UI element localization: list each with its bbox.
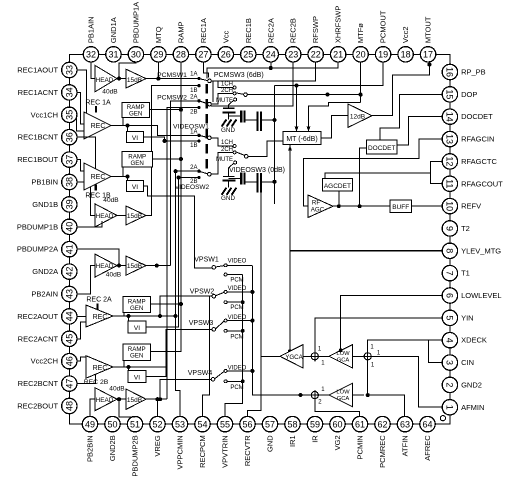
svg-text:57: 57 xyxy=(265,419,275,429)
pin 47 REC2BCNT xyxy=(18,376,77,391)
svg-text:DOP: DOP xyxy=(461,90,477,99)
wire HEAD1B to 15dB1B xyxy=(117,214,126,216)
svg-text:REC1A: REC1A xyxy=(199,18,208,43)
svg-text:VI: VI xyxy=(134,325,140,332)
wire vps1 pcm xyxy=(227,274,242,276)
svg-text:VG2: VG2 xyxy=(333,435,342,450)
pin 39 GND1B xyxy=(32,197,77,212)
svg-text:VI: VI xyxy=(132,184,138,191)
svg-text:6: 6 xyxy=(445,293,455,298)
svg-text:REC1B: REC1B xyxy=(244,18,253,43)
svg-text:REC2BCNT: REC2BCNT xyxy=(18,379,59,388)
svg-text:16: 16 xyxy=(445,67,455,77)
wire pin27 REC1A ctl xyxy=(203,62,208,78)
svg-text:RFAGCOUT: RFAGCOUT xyxy=(461,179,503,188)
svg-text:51: 51 xyxy=(130,419,140,429)
wire pin37 to REC1B xyxy=(77,160,84,171)
svg-text:Vcc2CH: Vcc2CH xyxy=(31,357,59,366)
svg-text:REC 2B: REC 2B xyxy=(84,379,109,386)
svg-text:CIN: CIN xyxy=(461,358,474,367)
op-amp 12dB xyxy=(348,104,372,127)
svg-text:REC: REC xyxy=(93,365,108,372)
svg-text:GND: GND xyxy=(221,127,235,134)
op-amp HEAD 1B xyxy=(95,197,119,227)
wire VI1A out to VIDEOSW1 1B xyxy=(144,137,198,143)
wire vsw1 common to 1CH xyxy=(211,138,233,146)
pin 46 Vcc2CH xyxy=(31,354,77,369)
svg-text:LOWLEVEL: LOWLEVEL xyxy=(461,291,501,300)
wire VI2B top xyxy=(128,367,130,370)
wire sw1 common to 1CH xyxy=(211,81,233,88)
package ring bus xyxy=(69,54,450,424)
wire pcm bus xyxy=(242,275,244,382)
svg-text:42: 42 xyxy=(65,267,75,277)
wire pin52 VREG xyxy=(157,399,159,416)
svg-text:36: 36 xyxy=(65,132,75,142)
block VI 2A xyxy=(128,321,146,333)
wire pin21 gang xyxy=(207,62,338,79)
wire S2 to LOWGCA1 xyxy=(353,355,365,357)
label MUTE pcm xyxy=(216,98,233,104)
label S2 w3 xyxy=(371,363,375,369)
switch VPSW4 xyxy=(211,369,227,382)
svg-text:VPSW2: VPSW2 xyxy=(190,289,215,296)
pin 36 REC1BCNT xyxy=(18,130,77,145)
svg-text:YIN: YIN xyxy=(461,313,474,322)
svg-text:27: 27 xyxy=(198,50,208,60)
label 2B vsw2 xyxy=(190,179,197,185)
pin 16 RP_PB xyxy=(442,64,486,79)
svg-text:PBDUMP2B: PBDUMP2B xyxy=(131,435,140,476)
pin 37 REC1BOUT xyxy=(17,152,77,167)
sum node S3 xyxy=(310,390,321,401)
label MUTE vid xyxy=(216,157,233,163)
wire RFAGC out to BUFF xyxy=(333,205,390,207)
svg-text:39: 39 xyxy=(65,199,75,209)
pin 44 REC2AOUT xyxy=(17,309,77,324)
svg-text:Vcc1CH: Vcc1CH xyxy=(31,110,59,119)
block DOCDET xyxy=(367,140,398,154)
wire cap branch vid xyxy=(229,177,240,179)
svg-text:YGCA: YGCA xyxy=(285,354,303,361)
pin 9 T2 xyxy=(442,221,470,236)
wire pin36 to REC1B ctl xyxy=(77,137,96,169)
ground pcm xyxy=(222,120,237,127)
label VIDEO vps2 xyxy=(228,286,247,292)
pin 20 MTFø xyxy=(353,23,368,62)
wire XDECK CIN to S2 xyxy=(368,340,443,362)
label VPSW3 xyxy=(189,320,214,327)
wire VI2A out riser VIDEOSW2 2B xyxy=(146,176,198,328)
svg-text:BUFF: BUFF xyxy=(392,204,409,211)
pin 13 RFAGCIN xyxy=(442,131,494,146)
label 2CH pcm xyxy=(221,88,233,94)
svg-text:12: 12 xyxy=(445,156,455,166)
svg-text:REC1AOUT: REC1AOUT xyxy=(17,66,58,75)
svg-text:GEN: GEN xyxy=(130,160,143,167)
svg-text:PCMIN: PCMIN xyxy=(356,435,365,459)
label PCM vps2 xyxy=(230,305,243,311)
wire pin23 stub xyxy=(211,62,293,106)
svg-text:PCM: PCM xyxy=(230,305,243,311)
svg-text:PB1BIN: PB1BIN xyxy=(31,178,58,187)
pin 60 VG2 xyxy=(330,416,345,450)
pin 54 RECPCM xyxy=(195,416,210,467)
label VIDEO vps1 xyxy=(228,259,247,265)
svg-text:59: 59 xyxy=(310,419,320,429)
wire pin34 to REC1A xyxy=(77,92,84,124)
svg-text:REC: REC xyxy=(93,314,108,321)
wire pin47 to REC2B ctl xyxy=(77,374,96,383)
svg-text:PB2AIN: PB2AIN xyxy=(31,290,58,299)
wire pin55 to pcm bus xyxy=(225,381,243,416)
wire 15dB2B out xyxy=(146,397,167,401)
svg-text:15dB: 15dB xyxy=(127,77,142,84)
pin 8 YLEV_MTG xyxy=(442,243,501,258)
wire cap2 to riser vid xyxy=(261,180,277,184)
svg-text:60: 60 xyxy=(332,419,342,429)
svg-text:XHRFSWP: XHRFSWP xyxy=(334,6,343,44)
svg-text:8: 8 xyxy=(445,248,455,253)
pin 23 REC2B xyxy=(286,18,301,62)
wire YLEV_MTG xyxy=(290,250,442,252)
svg-text:PCMSW2: PCMSW2 xyxy=(157,94,187,101)
svg-text:1B: 1B xyxy=(190,143,197,149)
pin 63 ATFIN xyxy=(397,416,412,456)
svg-text:37: 37 xyxy=(65,155,75,165)
label PCMSW3 xyxy=(214,72,264,79)
svg-text:15dB: 15dB xyxy=(127,213,142,220)
pin 28 RAMP xyxy=(173,21,188,62)
label 1CH vid xyxy=(221,140,233,146)
svg-text:PCMOUT: PCMOUT xyxy=(379,10,388,43)
pin 19 PCMOUT xyxy=(375,10,390,62)
wire REC1A out / VIDEOSW1 1A xyxy=(111,124,198,136)
wire cap2 to riser pcm xyxy=(261,118,277,122)
capacitor mute-vid xyxy=(222,168,235,188)
op-amp 15dB 2B xyxy=(126,389,146,409)
wire pin44 to REC2A xyxy=(77,315,86,317)
svg-text:1: 1 xyxy=(445,405,455,410)
pin 43 PB2AIN xyxy=(31,286,77,301)
svg-text:18: 18 xyxy=(401,50,411,60)
op-amp LOW GCA 1 xyxy=(329,345,353,368)
pin 59 IR xyxy=(307,416,322,442)
wire vps2 pcm xyxy=(227,300,244,304)
svg-text:40dB: 40dB xyxy=(109,386,125,393)
svg-text:LOW: LOW xyxy=(336,351,350,357)
label 1B vsw1 xyxy=(190,143,197,149)
pin 22 RFSWP xyxy=(308,16,323,62)
wire pin45 to REC2A xyxy=(77,322,86,339)
wire S3 left to video bus xyxy=(252,266,311,397)
wire REC2B out xyxy=(113,365,166,369)
label 1A sw1 xyxy=(190,71,197,77)
wire pin43 to HEAD2A xyxy=(77,266,95,294)
svg-text:41: 41 xyxy=(65,244,75,254)
svg-text:MT (-6dB): MT (-6dB) xyxy=(286,136,317,143)
svg-text:VIDEO: VIDEO xyxy=(228,259,247,265)
wire riser VPSW2 from REC2A xyxy=(160,296,212,316)
wire ramp1A stub xyxy=(150,109,181,111)
wire pin38 to HEAD1B xyxy=(77,182,95,215)
block AGCDET xyxy=(322,179,352,192)
pin 61 PCMIN xyxy=(352,416,367,459)
capacitor big vid xyxy=(258,173,262,193)
svg-text:GND2A: GND2A xyxy=(32,267,58,276)
wire pin46 Vcc2CH xyxy=(77,357,86,361)
svg-text:REC2BOUT: REC2BOUT xyxy=(17,402,58,411)
wire pin24 stub xyxy=(269,62,273,70)
wire cap2 col to pin56 xyxy=(248,193,262,417)
pin 30 PBDUMP1A xyxy=(128,2,143,62)
svg-text:35: 35 xyxy=(65,110,75,120)
svg-text:23: 23 xyxy=(288,50,298,60)
block MT -6dB xyxy=(283,132,321,145)
wire rampgen2B stub xyxy=(123,360,125,367)
label VIDEO vps3 xyxy=(228,315,247,321)
op-amp HEAD 2A xyxy=(95,254,122,278)
svg-text:47: 47 xyxy=(65,379,75,389)
pin 24 REC2A xyxy=(263,18,278,62)
svg-text:RFAGCIN: RFAGCIN xyxy=(461,135,494,144)
svg-text:VI: VI xyxy=(132,135,138,142)
wire riser 2B to PCMSW2 2B xyxy=(167,108,198,400)
svg-text:2B: 2B xyxy=(190,110,197,116)
svg-text:25: 25 xyxy=(243,50,253,60)
wire pin53 riser xyxy=(174,314,180,416)
label S1 w1 xyxy=(318,347,322,353)
pin 35 Vcc1CH xyxy=(31,107,77,122)
pin 51 PBDUMP2B xyxy=(127,416,142,476)
wire vps2 video xyxy=(227,290,254,294)
wire VI1A top xyxy=(127,126,129,132)
svg-text:XDECK: XDECK xyxy=(461,336,487,345)
op-amp REC 1A xyxy=(84,112,111,139)
svg-text:PB1AIN: PB1AIN xyxy=(87,16,96,43)
pin 17 MTOUT xyxy=(420,16,435,62)
svg-text:Vcc: Vcc xyxy=(221,30,230,43)
svg-text:PB2BIN: PB2BIN xyxy=(86,435,95,462)
pin 3 CIN xyxy=(442,355,474,370)
svg-text:Vcc2: Vcc2 xyxy=(401,26,410,43)
switch PCMSW3 xyxy=(233,86,247,96)
label 2A vsw2 xyxy=(190,165,197,171)
svg-text:17: 17 xyxy=(423,50,433,60)
svg-text:40dB: 40dB xyxy=(102,89,118,96)
label PCMSW2 xyxy=(157,94,187,101)
label 2B sw2 xyxy=(190,110,197,116)
svg-text:RFAGCTC: RFAGCTC xyxy=(461,157,497,166)
svg-text:AFREC: AFREC xyxy=(423,435,432,461)
wire HEAD1A to 15dB1A xyxy=(117,78,126,80)
label 1CH pcm xyxy=(221,81,233,87)
pin 26 Vcc xyxy=(218,30,233,62)
wire VI2A top xyxy=(128,316,130,321)
block RAMP GEN 1A xyxy=(122,102,150,117)
svg-text:13: 13 xyxy=(445,134,455,144)
wire VI1B top xyxy=(127,177,129,181)
pin 12 RFAGCTC xyxy=(442,154,497,169)
wire riser VPSW4 xyxy=(160,379,211,399)
svg-text:GEN: GEN xyxy=(129,111,142,118)
label S1 w2 xyxy=(321,361,325,367)
wire AGCDET down xyxy=(337,191,341,208)
wire pin13 to RFAGC xyxy=(303,139,442,206)
svg-text:19: 19 xyxy=(378,50,388,60)
label VPSW1 xyxy=(194,257,219,264)
wire REC1B out xyxy=(111,175,130,179)
label GND pcm xyxy=(221,127,235,134)
label 1B sw1 xyxy=(190,88,197,94)
pin 62 PCMREC xyxy=(375,416,390,467)
svg-text:REC 1B: REC 1B xyxy=(85,193,111,200)
op-amp RF AGC xyxy=(308,195,333,218)
label S2 w1 xyxy=(370,345,374,351)
pin 29 MTQ xyxy=(151,26,166,62)
svg-text:1A: 1A xyxy=(190,129,197,135)
svg-text:PCM: PCM xyxy=(230,335,243,341)
pin 1 AFMIN xyxy=(442,400,484,415)
wire pin32 to HEAD1A xyxy=(91,62,95,79)
pin 6 LOWLEVEL xyxy=(442,288,501,303)
svg-text:1A: 1A xyxy=(190,71,197,77)
pin 50 GND2B xyxy=(105,416,120,461)
svg-text:4: 4 xyxy=(445,338,455,343)
op-amp HEAD 1A xyxy=(95,65,118,95)
svg-text:PCM: PCM xyxy=(230,278,243,284)
wire ramp1B stub xyxy=(150,158,181,160)
svg-text:63: 63 xyxy=(400,419,410,429)
pin 38 PB1BIN xyxy=(31,174,77,189)
label REC 1A xyxy=(85,100,111,107)
svg-text:REC2A: REC2A xyxy=(266,18,275,43)
wire MT out to 12dB xyxy=(321,116,348,138)
svg-text:PBDUMP1A: PBDUMP1A xyxy=(131,2,140,43)
wire vps4 pcm xyxy=(227,379,244,383)
svg-text:43: 43 xyxy=(65,289,75,299)
svg-text:62: 62 xyxy=(377,419,387,429)
svg-text:GCA: GCA xyxy=(337,358,350,364)
wire pin29 MTQ xyxy=(157,62,159,79)
switch PCMSW2 xyxy=(197,99,211,109)
svg-text:HEAD: HEAD xyxy=(96,77,114,84)
control tick REC1A xyxy=(95,106,97,113)
svg-text:RECVTR: RECVTR xyxy=(243,435,252,466)
svg-text:32: 32 xyxy=(86,50,96,60)
pin 40 PBDUMP1B xyxy=(17,219,77,234)
pin 58 IR1 xyxy=(285,416,300,447)
svg-text:21: 21 xyxy=(333,50,343,60)
op-amp 15dB 1B xyxy=(126,206,146,225)
label GND vid xyxy=(221,195,235,202)
wire S1 to YGCA xyxy=(303,355,311,357)
svg-text:GND1B: GND1B xyxy=(32,200,58,209)
label REC 2A xyxy=(86,297,112,304)
wire DOP to DOCDET xyxy=(380,94,442,140)
svg-text:REC 2A: REC 2A xyxy=(86,297,112,304)
op-amp REC 2B xyxy=(86,356,113,379)
pin 64 AFREC xyxy=(420,416,435,460)
svg-text:LOW: LOW xyxy=(336,390,350,396)
svg-text:HEAD: HEAD xyxy=(96,397,114,404)
wire ramp2A stub xyxy=(151,303,181,305)
wire vps3 video xyxy=(227,319,254,323)
svg-text:GEN: GEN xyxy=(130,305,143,312)
svg-text:3: 3 xyxy=(445,360,455,365)
svg-text:31: 31 xyxy=(108,50,118,60)
svg-text:44: 44 xyxy=(65,311,75,321)
svg-text:22: 22 xyxy=(311,50,321,60)
wire 15dB1B out riser to PCMSW1 1B xyxy=(146,86,198,216)
svg-text:MUTE: MUTE xyxy=(216,157,233,163)
wire rampgen1B stub xyxy=(122,167,124,177)
svg-text:48: 48 xyxy=(65,401,75,411)
label VPSW2 xyxy=(190,289,215,296)
pin 49 PB2BIN xyxy=(82,416,97,462)
svg-text:REC1ACNT: REC1ACNT xyxy=(18,88,59,97)
svg-text:14: 14 xyxy=(445,112,455,122)
wire MT bottom col xyxy=(288,145,292,354)
pin 21 XHRFSWP xyxy=(330,6,345,62)
switch VPSW3 xyxy=(212,319,227,332)
svg-text:29: 29 xyxy=(153,50,163,60)
svg-text:38: 38 xyxy=(65,177,75,187)
svg-text:2: 2 xyxy=(445,382,455,387)
label S3 w2 xyxy=(318,400,322,406)
op-amp YGCA xyxy=(280,345,304,368)
pin 53 VPPCMIN xyxy=(172,416,187,469)
svg-text:MTQ: MTQ xyxy=(154,26,163,43)
svg-text:15: 15 xyxy=(445,89,455,99)
wire dot to ATFIN xyxy=(368,395,405,416)
wire videosw3 common to MT xyxy=(248,141,283,156)
switch VPSW2 xyxy=(212,290,227,303)
svg-text:PCMREC: PCMREC xyxy=(378,435,387,468)
block VI 1B xyxy=(127,181,144,192)
wire pin19 PCMOUT run xyxy=(275,62,384,88)
svg-text:9: 9 xyxy=(445,226,455,231)
pin 25 REC1B xyxy=(241,18,256,62)
wire YGCA out xyxy=(261,355,280,357)
svg-text:AGC: AGC xyxy=(311,207,325,214)
wire vps1 video xyxy=(227,264,252,266)
control tick REC1B xyxy=(95,185,97,191)
svg-text:T1: T1 xyxy=(461,269,470,278)
svg-text:VIDEO: VIDEO xyxy=(228,286,247,292)
pin 18 Vcc2 xyxy=(398,26,413,62)
wire MT input A xyxy=(295,86,299,132)
wire pin11 AGC out xyxy=(325,173,442,184)
wire pin41 PBDUMP2A xyxy=(77,249,121,267)
svg-text:GND: GND xyxy=(266,435,275,452)
wire YIN to S1 xyxy=(315,318,442,353)
svg-text:61: 61 xyxy=(355,419,365,429)
svg-text:2A: 2A xyxy=(190,95,197,101)
wire cap to cap2 pcm xyxy=(245,119,257,121)
svg-text:33: 33 xyxy=(65,65,75,75)
svg-text:VPVTRIN: VPVTRIN xyxy=(221,435,230,468)
op-amp REC 1B xyxy=(84,163,111,190)
wire vps4 video xyxy=(227,369,254,373)
svg-text:REC: REC xyxy=(91,123,106,130)
svg-text:20: 20 xyxy=(356,50,366,60)
ground vid xyxy=(222,188,237,195)
wire cap to cap2 vid xyxy=(245,181,257,183)
svg-text:REC 1A: REC 1A xyxy=(85,100,111,107)
svg-text:46: 46 xyxy=(65,356,75,366)
block BUFF xyxy=(390,200,412,213)
